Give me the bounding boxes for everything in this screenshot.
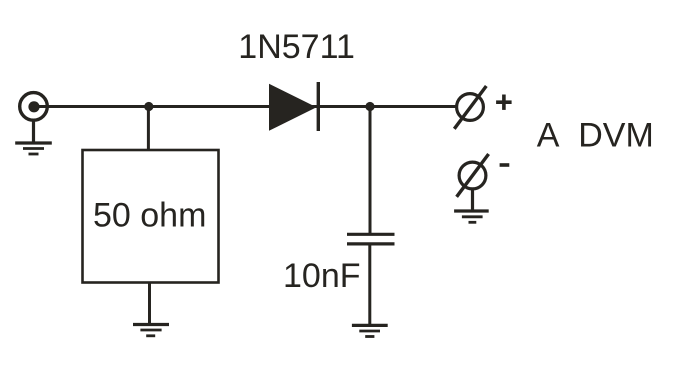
ground (below negative terminal): [454, 211, 489, 222]
input connector J1: [20, 93, 48, 121]
svg-text:A DVM: A DVM: [537, 116, 654, 154]
capacitor C1: [347, 234, 395, 244]
svg-text:50 ohm: 50 ohm: [93, 197, 206, 235]
wire (junction down to capacitor): [369, 107, 372, 235]
wire (resistor bottom to ground): [148, 283, 151, 325]
ground (below resistor): [133, 325, 169, 336]
svg-text:10nF: 10nF: [283, 257, 361, 295]
wire (main horizontal line): [34, 105, 456, 108]
diode D1 1N5711: [269, 82, 318, 131]
plus sign: [496, 95, 512, 110]
wire (negative terminal to ground): [471, 189, 474, 211]
resistor R1 50 ohm (box): [83, 150, 219, 283]
wire (connector to ground): [32, 120, 35, 143]
wire (capacitor bottom to ground): [368, 244, 371, 326]
node B (junction diode / capacitor): [365, 102, 374, 111]
node A (junction main wire / resistor): [144, 102, 153, 111]
ground (below input connector): [15, 143, 52, 154]
terminal - (DVM negative): [457, 154, 489, 197]
terminal + (DVM positive): [454, 86, 486, 129]
wire (junction down to resistor): [147, 107, 150, 152]
minus sign: [500, 163, 510, 167]
ground (below capacitor): [352, 325, 388, 336]
svg-text:1N5711: 1N5711: [238, 28, 355, 66]
